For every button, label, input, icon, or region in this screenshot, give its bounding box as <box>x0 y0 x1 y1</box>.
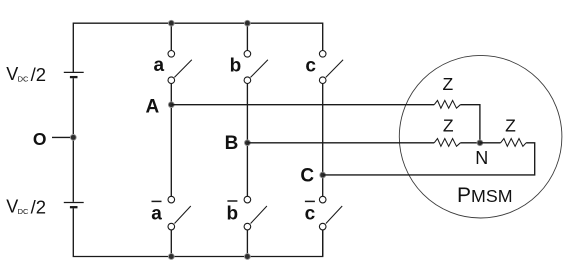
wire: left rail between capacitors <box>72 78 74 202</box>
svg-text:c: c <box>305 55 316 76</box>
wire: bottom DC bus <box>73 208 322 256</box>
svg-text:PMSM: PMSM <box>457 184 513 207</box>
svg-text:c: c <box>305 203 316 224</box>
wire: Zb to node N <box>460 142 479 144</box>
svg-text:V: V <box>6 64 18 84</box>
switch Sc bottom terminal <box>319 77 326 84</box>
junction dot bottom bus phase a <box>168 254 174 260</box>
svg-text:O: O <box>33 129 47 149</box>
svg-text:C: C <box>300 166 314 187</box>
svg-text:N: N <box>475 148 488 168</box>
wire: phase A output to Za <box>171 104 434 106</box>
svg-text:/2: /2 <box>31 196 46 217</box>
switch Sb blade <box>251 60 268 78</box>
resistor Zb <box>434 139 460 147</box>
label c-bar overline <box>305 200 315 202</box>
node N junction dot <box>477 140 483 146</box>
switch Sb top terminal <box>244 51 251 58</box>
label Vdc/2 upper <box>6 64 46 85</box>
wire: phase-a mid leg <box>170 84 172 197</box>
switch Sa blade <box>174 60 191 78</box>
capacitor C2 (Vdc/2) short thick plate <box>70 206 78 208</box>
wire: top DC bus <box>73 23 322 72</box>
wire: phase-a leg from top bus <box>170 23 172 50</box>
capacitor C1 (Vdc/2) long plate <box>64 71 84 73</box>
label a-bar overline <box>152 200 162 202</box>
resistor Zc <box>501 139 526 147</box>
wire: node N to Zc <box>480 142 501 144</box>
switch Sc blade <box>326 60 343 78</box>
wire: phase-c leg to bottom bus <box>322 230 324 257</box>
junction dot top bus phase b <box>245 20 251 26</box>
wire: Zc return to node C <box>323 143 535 175</box>
switch Sa bottom terminal <box>168 77 175 84</box>
node O junction dot <box>70 135 76 141</box>
svg-text:V: V <box>6 197 18 217</box>
resistor Za <box>434 100 460 108</box>
svg-text:DC: DC <box>18 74 29 83</box>
switch Sc' top terminal <box>319 196 326 203</box>
node B junction dot <box>245 140 251 146</box>
junction dot top bus phase a <box>168 20 174 26</box>
switch Sb' blade <box>251 206 267 224</box>
junction dot bottom bus phase b <box>245 254 251 260</box>
PMSM stator circle <box>399 55 562 218</box>
switch Sa' top terminal <box>168 196 175 203</box>
svg-text:A: A <box>146 97 160 118</box>
node C junction dot <box>320 172 326 178</box>
label b-bar overline <box>227 200 237 202</box>
svg-text:b: b <box>226 203 238 224</box>
svg-text:a: a <box>154 55 165 76</box>
svg-text:DC: DC <box>18 207 29 216</box>
wire: phase B output to Zb <box>247 142 434 144</box>
svg-text:a: a <box>151 204 162 225</box>
svg-text:Z: Z <box>443 116 454 136</box>
wire: phase-b leg to bottom bus <box>246 230 248 257</box>
label Vdc/2 lower <box>6 196 46 217</box>
switch Sb bottom terminal <box>244 77 251 84</box>
switch Sc' bottom terminal <box>319 223 326 230</box>
wire: phase-b leg from top bus <box>246 23 248 50</box>
wire: phase-c mid leg <box>322 84 324 197</box>
switch Sc top terminal <box>319 51 326 58</box>
capacitor C2 (Vdc/2) long plate <box>64 202 84 204</box>
wire: node O stub <box>52 136 73 138</box>
switch Sa' blade <box>175 206 191 224</box>
svg-text:/2: /2 <box>31 64 46 85</box>
wire: phase-a leg to bottom bus <box>170 230 172 257</box>
svg-text:B: B <box>225 133 239 154</box>
node A junction dot <box>168 102 174 108</box>
svg-text:Z: Z <box>505 116 516 136</box>
switch Sb' bottom terminal <box>244 223 251 230</box>
capacitor C1 (Vdc/2) short thick plate <box>70 76 78 78</box>
switch Sa top terminal <box>168 51 175 58</box>
svg-text:Z: Z <box>443 74 454 94</box>
wire: Za to node N <box>460 105 480 143</box>
switch Sb' top terminal <box>244 196 251 203</box>
svg-text:b: b <box>230 55 242 76</box>
switch Sa' bottom terminal <box>168 223 175 230</box>
switch Sc' blade <box>326 206 342 224</box>
wire: phase-b mid leg <box>246 84 248 197</box>
